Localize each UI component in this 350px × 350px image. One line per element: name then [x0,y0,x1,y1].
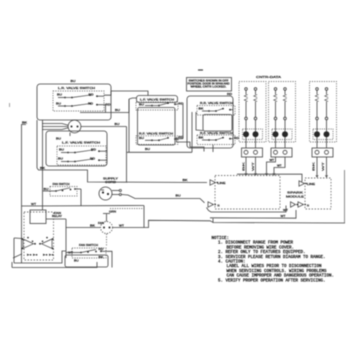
wire drop to motor line [143,206,145,228]
svg-text:LABEL ALL WIRES PRIOR TO DISCO: LABEL ALL WIRES PRIOR TO DISCONNECTION [227,265,323,269]
svg-text:LINE: LINE [307,182,315,186]
wire BK to spark module line [37,168,207,183]
valve switch L.F. dashed body [57,146,106,165]
supply cord prongs [112,190,119,192]
svg-text:FAN SWITCH: FAN SWITCH [53,182,70,186]
triac right [42,239,53,249]
svg-text:BK: BK [241,161,245,171]
svg-text:BU: BU [57,93,62,97]
svg-text:5. VERIFY PROPER OPERATION AFT: 5. VERIFY PROPER OPERATION AFTER SERVICI… [218,279,326,283]
svg-text:BU: BU [44,187,49,191]
svg-text:2. REFER ONLY TO FEATURES EQUI: 2. REFER ONLY TO FEATURES EQUIPPED. [218,251,306,255]
svg-text:R.F. VALVE SWITCH: R.F. VALVE SWITCH [200,131,233,135]
dashed stub near supply [110,208,144,210]
svg-text:RD: RD [227,92,232,96]
svg-text:RD: RD [234,136,239,140]
wire long WT horizontal [22,205,145,208]
valve switch L.F. outer box [46,131,107,166]
valve switch center label box [137,96,178,103]
wire lower from L.R. [80,99,129,113]
triac left [23,239,34,249]
svg-text:BU: BU [176,194,181,198]
oven light wire right [81,126,127,128]
igniter 2 wire left [267,157,276,173]
right module LINE arrow [299,181,305,186]
fan switch dashed body [50,187,77,197]
left stub wire top [14,237,23,240]
svg-text:R.R. VALVE SWITCH: R.R. VALVE SWITCH [200,101,233,105]
svg-text:L.F. VALVE SWITCH: L.F. VALVE SWITCH [140,98,174,102]
switch R.R. row [208,110,210,112]
motor branch vertical [65,219,67,258]
svg-text:BU: BU [139,136,144,140]
valve switch L.R. dashed body [53,91,104,111]
svg-text:WT: WT [321,161,325,171]
valve switch right outer box [187,96,233,148]
wire supply to spark module N [122,195,205,203]
wire left vertical second [42,120,44,206]
svg-text:GRN: GRN [109,211,116,214]
svg-text:WT: WT [251,161,255,171]
svg-text:CORD: CORD [105,180,116,184]
svg-text:BK: BK [40,166,45,170]
svg-text:BU: BU [56,137,61,141]
relay to motor wire [46,218,66,220]
svg-text:WT: WT [283,208,288,212]
svg-text:RD: RD [99,248,104,251]
svg-text:RD: RD [88,102,93,106]
center-2 right exit [175,138,183,140]
switch center-2 row [151,139,153,141]
right edge vertical wire [344,170,346,223]
fan switch right wire down [80,189,82,206]
svg-text:NOTICE:: NOTICE: [212,237,230,241]
oven light wires left [42,124,68,126]
svg-text:BU: BU [115,108,120,112]
svg-text:WT: WT [31,202,37,206]
svg-text:BU: BU [145,147,150,151]
ground tick and label GRN [103,213,110,215]
svg-text:R.F. VALVE SWITCH: R.F. VALVE SWITCH [139,132,173,136]
wire BK left long drop [22,125,27,264]
igniter 3 wires down [316,157,318,175]
switch R.F. row [208,139,210,141]
fan relay box [30,210,46,224]
right routing box [203,115,232,132]
valve switch R.R. dashed body [197,106,235,116]
left wire loop [13,238,15,263]
svg-text:RD: RD [106,103,111,107]
switch L.F. row 1 [67,152,69,154]
svg-text:1. DISCONNECT RANGE FROM POWER: 1. DISCONNECT RANGE FROM POWER [218,242,294,246]
fan switch 2 right exit [108,251,113,267]
svg-text:4. CAUTION:: 4. CAUTION: [218,261,246,265]
wire L.R. to center unit [104,91,148,96]
svg-text:BU: BU [71,79,76,83]
svg-text:MODULE: MODULE [286,194,304,198]
svg-text:BU: BU [115,122,120,126]
svg-text:FAN: FAN [98,222,104,225]
inner bottom wire [14,251,66,263]
svg-text:BK: BK [99,256,104,259]
svg-text:BU: BU [58,157,63,161]
valve switch R.F. dashed body [197,135,235,145]
svg-text:LINE: LINE [218,181,226,185]
switch center-1 row [151,105,153,107]
svg-text:FAN SWITCH: FAN SWITCH [79,243,98,247]
switch info text box [187,78,232,92]
fan switch 2 dashed body [72,248,106,258]
svg-text:BU: BU [56,102,61,106]
center column left wire [129,98,137,99]
valve switch center-1 dashed body [136,102,178,110]
svg-text:BK: BK [90,223,95,227]
bottom bus wire [213,219,345,224]
spark module left LINE arrow [210,180,216,185]
svg-text:WT: WT [277,165,282,168]
spark module right box [305,178,331,209]
svg-text:BK: BK [199,136,204,140]
svg-text:N: N [218,204,220,208]
wire bus to right module line [237,174,302,183]
svg-text:WHEEL CNTR LOCKED.: WHEEL CNTR LOCKED. [191,86,227,89]
wire center column to line wire [126,127,128,183]
wire L.R. right to center drop [104,105,106,113]
svg-text:CAN CAUSE IMPROPER AND DANGERO: CAN CAUSE IMPROPER AND DANGEROUS OPERATI… [227,275,335,279]
ref mark [198,69,203,71]
oven light [68,120,81,133]
triac pins [27,254,30,256]
svg-text:BU: BU [59,148,64,152]
valve switch center-2 dashed body [136,136,178,145]
spark module right N arrow [298,202,304,207]
left edge artifact [9,103,11,107]
igniter box 1 [239,82,266,143]
svg-text:3. SERVICER PLEASE RETURN DIAG: 3. SERVICER PLEASE RETURN DIAGRAM TO RAN… [218,256,326,260]
spark module left N arrow [208,202,214,207]
right inner wire [196,112,203,131]
svg-text:WT: WT [281,214,286,218]
svg-text:RD: RD [91,148,96,152]
wire under center units [127,151,192,153]
center routing box [138,108,176,146]
wire left vertical inner [36,120,38,168]
svg-text:BEFORE REMOVING WIRE COVER.: BEFORE REMOVING WIRE COVER. [227,246,295,250]
relay-triac dashed enclosure [24,212,54,260]
igniter box 3 [310,82,337,143]
svg-text:WT: WT [119,223,124,227]
svg-text:BK: BK [199,107,204,111]
spark module left box [215,176,280,210]
switch L.R. row 1 [64,97,66,99]
svg-text:WT: WT [270,159,275,162]
center routing to right units [177,137,205,152]
svg-text:RD: RD [90,157,95,161]
svg-text:N: N [307,204,309,208]
fan motor [101,222,113,234]
igniter 1 wires down [245,157,247,173]
svg-text:L.R. VALVE SWITCH: L.R. VALVE SWITCH [58,86,95,90]
svg-text:BK: BK [311,161,315,171]
fan switch 2 box [65,255,108,267]
bus left link [113,220,213,227]
svg-text:BK: BK [22,121,27,125]
valve switch L.R. outer box [37,84,111,120]
wire N loop to right module [207,206,287,213]
supply cord plug [99,187,112,200]
oven light to L.F. stub [69,133,71,137]
svg-text:RD: RD [89,93,94,97]
svg-text:CNTR-DATA: CNTR-DATA [256,75,281,79]
igniter box 2 [269,82,296,143]
switch L.F. row 2 [67,161,69,163]
wire lower WT [210,210,296,218]
svg-text:BU: BU [139,103,144,107]
svg-text:L.F. VALVE SWITCH: L.F. VALVE SWITCH [62,141,100,145]
switch L.R. row 2 [64,105,66,107]
svg-text:BU: BU [74,260,79,263]
motor bottom dashed stub [106,234,108,246]
svg-text:BK: BK [183,178,188,182]
svg-text:WHEN SERVICING CONTROLS. WIRIN: WHEN SERVICING CONTROLS. WIRING PROBLEMS [227,270,328,274]
igniter 2 wire right [274,157,285,173]
R.F. bottom stub [212,145,214,152]
